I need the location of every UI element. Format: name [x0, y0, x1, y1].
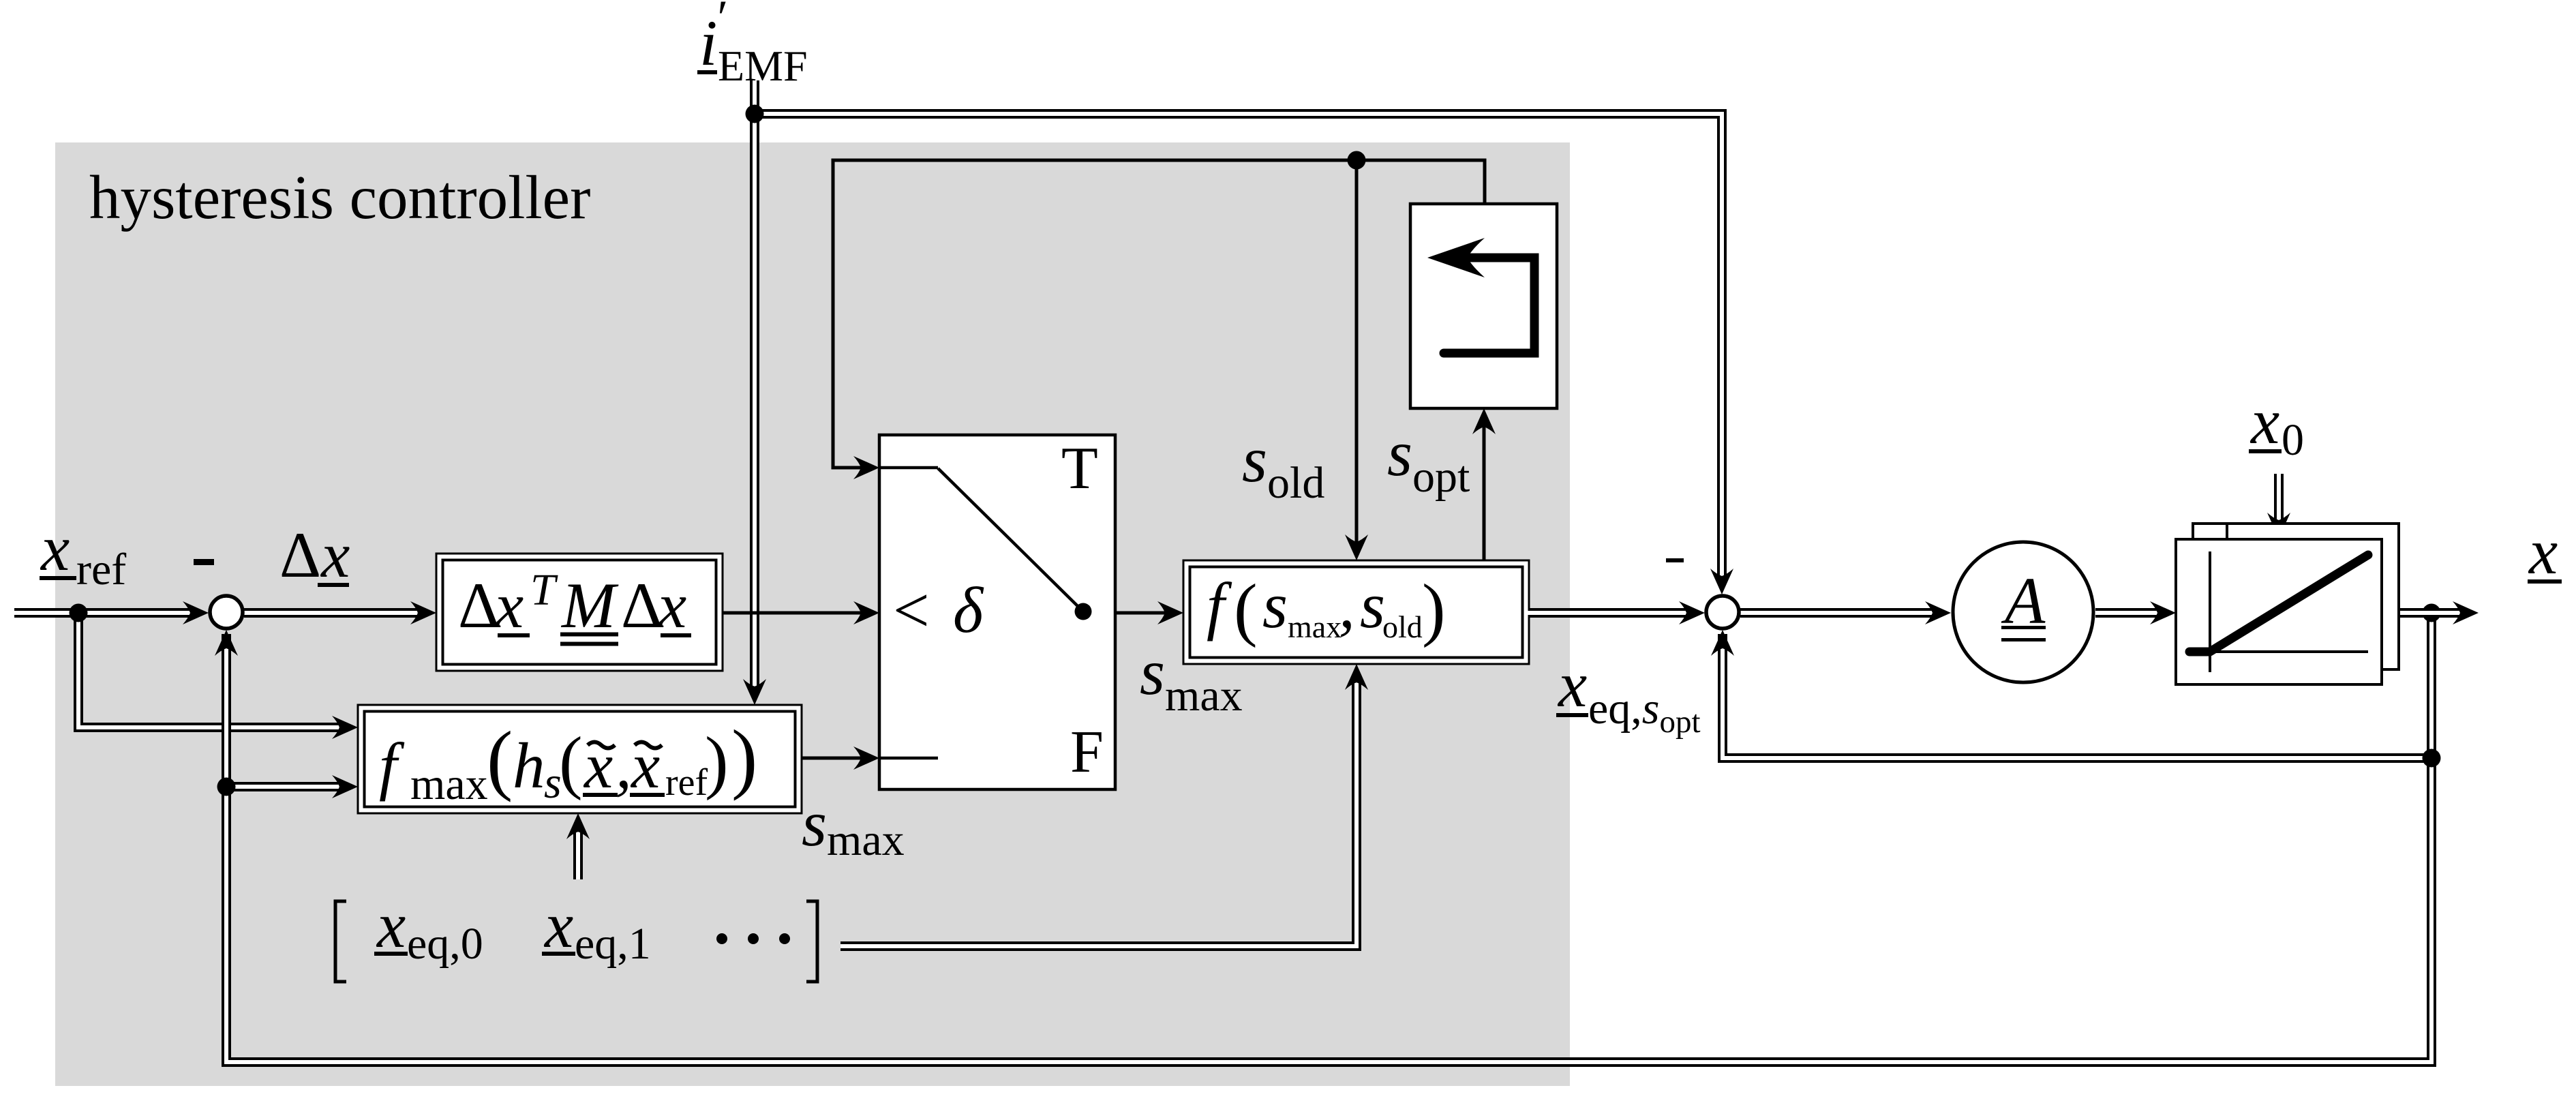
summing node 2	[1706, 596, 1739, 629]
svg-text:F: F	[1070, 719, 1104, 785]
wire summing node 1 to Delta-x block	[244, 601, 436, 624]
svg-text:<: <	[893, 574, 930, 646]
svg-text:): )	[1422, 570, 1446, 648]
svg-text:,: ,	[616, 729, 632, 802]
wire feedback bottom: from output junction down, left, and up into summing node 1	[215, 613, 2431, 1062]
block saturation front layer	[2176, 539, 2382, 684]
label x_eq,1	[542, 889, 651, 969]
block switch T/F	[879, 435, 1115, 789]
node junction i_EMF	[746, 105, 764, 123]
svg-text:x: x	[376, 889, 406, 961]
label x_eq,0	[374, 889, 483, 969]
label cdots	[716, 933, 790, 944]
wire s_old loop from memory block around to switch T input	[833, 160, 1485, 479]
label x output	[2528, 515, 2562, 588]
svg-text:x: x	[1557, 648, 1587, 721]
wire saturation block to output x	[2382, 601, 2479, 624]
svg-text:old: old	[1382, 609, 1423, 644]
block saturation (stacked) back layer	[2193, 524, 2399, 669]
svg-text:s: s	[1262, 569, 1288, 641]
svg-text:(: (	[559, 723, 583, 801]
switch T stub	[879, 466, 938, 470]
label i'_EMF	[697, 0, 808, 90]
svg-text:x: x	[40, 512, 70, 584]
label Delta x	[279, 519, 350, 591]
svg-text:x: x	[494, 569, 524, 641]
wire x_eq list up into f_max bottom	[566, 813, 590, 879]
svg-text:): )	[705, 723, 729, 801]
wire M block output to switch middle input (scalar)	[723, 601, 879, 624]
svg-text:′: ′	[714, 0, 726, 45]
svg-text:x: x	[656, 569, 686, 641]
node junction x_ref	[70, 604, 88, 622]
svg-text:EMF: EMF	[718, 42, 808, 90]
svg-text:x: x	[2249, 385, 2279, 457]
wire A to saturation block	[2095, 601, 2176, 624]
svg-text:eq,1: eq,1	[575, 919, 651, 969]
svg-text:,: ,	[1339, 569, 1355, 641]
wire f block to summing node 2	[1529, 601, 1705, 624]
wire summing node 2 to A	[1740, 601, 1951, 624]
svg-text:Δ: Δ	[458, 569, 500, 641]
svg-text:x: x	[583, 729, 613, 802]
switch lever	[938, 468, 1083, 611]
svg-text:x: x	[630, 729, 660, 802]
wire x_0 into saturation block	[2267, 474, 2290, 539]
svg-text:δ: δ	[953, 574, 984, 646]
svg-text:s: s	[1360, 569, 1385, 641]
wire main input x_ref	[14, 601, 209, 624]
node junction output lower	[2423, 749, 2441, 768]
svg-text:max: max	[410, 759, 488, 809]
svg-text:M: M	[560, 569, 619, 641]
hysteresis controller shaded region	[55, 142, 1570, 1086]
wire feedback branch to f_max input 2	[226, 775, 358, 798]
svg-text:max: max	[1288, 609, 1342, 644]
wire feedback branch x_eq,sopt level into summing node 2	[1711, 630, 2431, 758]
svg-text:x: x	[543, 889, 573, 961]
wire switch output to f block (scalar)	[1083, 601, 1183, 624]
label x_eq,s_opt	[1556, 648, 1701, 740]
wire i_EMF vertical into f_max and branch to node S2	[743, 80, 766, 705]
svg-text:eq,0: eq,0	[407, 919, 483, 969]
switch output node	[1075, 603, 1092, 620]
wire f_max output to switch F input (scalar)	[802, 746, 879, 770]
node junction output top	[2423, 604, 2441, 622]
wire s_old down into f block	[1345, 160, 1368, 560]
label minus 1	[194, 559, 214, 565]
svg-text:Δ: Δ	[621, 569, 663, 641]
switch F stub	[879, 757, 938, 760]
node junction feedback to f_max	[217, 778, 236, 796]
block f_max(h_s(x,x_ref))	[358, 705, 802, 813]
svg-text:ref: ref	[665, 761, 708, 804]
label x_ref	[40, 512, 126, 594]
svg-text:hysteresis controller: hysteresis controller	[89, 163, 590, 232]
node junction s_old	[1348, 151, 1366, 170]
label x_eq vector bracket left	[335, 901, 346, 982]
svg-text:(: (	[487, 716, 513, 802]
summing node 1	[210, 596, 243, 629]
label x_eq vector bracket right	[806, 901, 817, 982]
label x_0	[2249, 385, 2304, 465]
wire notch through f block border	[1527, 611, 1535, 615]
wire i_EMF branch right and down into summing node 2	[755, 114, 1733, 594]
block A (circle)	[1953, 542, 2093, 682]
svg-text:): )	[731, 714, 757, 801]
wire x_ref branch down to f_max input 1	[78, 613, 358, 739]
block f(s_max,s_old)	[1183, 560, 1535, 664]
svg-text:ref: ref	[76, 545, 126, 594]
svg-text:h: h	[513, 729, 545, 802]
svg-text:T: T	[1061, 436, 1098, 502]
label minus 2	[1666, 558, 1684, 562]
svg-text:T: T	[530, 565, 558, 615]
block Delta-x^T M Delta-x	[436, 554, 723, 671]
svg-text:(: (	[1234, 570, 1258, 648]
svg-text:Δx: Δx	[279, 519, 350, 591]
wire x_eq list right and up into f bottom	[840, 664, 1368, 946]
wire s_opt from f block up into memory block	[1472, 408, 1496, 560]
svg-text:x: x	[2528, 515, 2558, 588]
block memory s_opt store	[1410, 204, 1557, 408]
svg-text:0: 0	[2282, 415, 2304, 465]
